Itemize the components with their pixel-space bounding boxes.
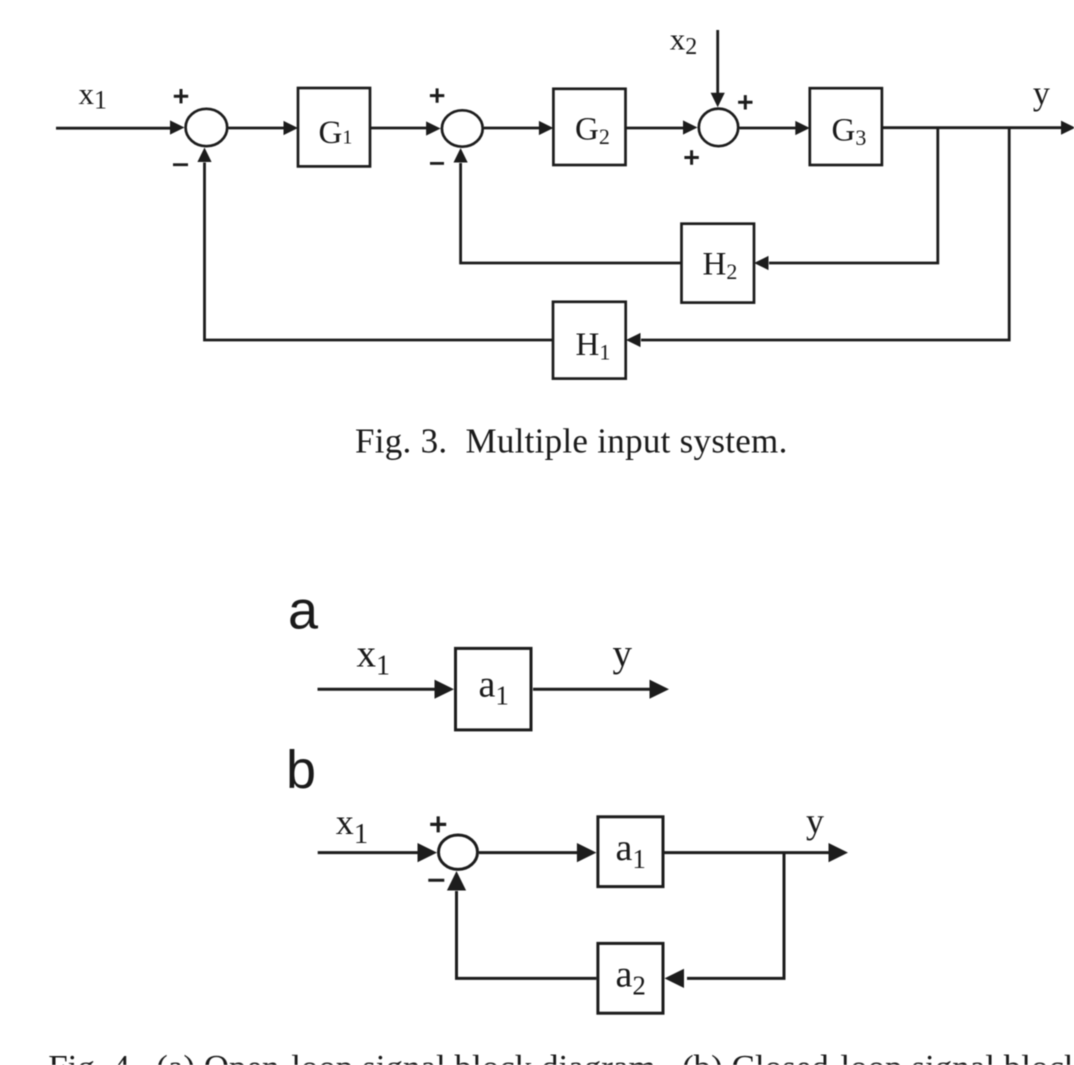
svg-text:y: y [1033,75,1050,112]
svg-text:x1: x1 [357,633,391,682]
svg-text:b: b [286,740,316,800]
svg-text:Fig. 4. (a) Open-loop signal: Fig. 4. (a) Open-loop signal block diagr… [48,1048,1074,1065]
arrowhead feedback into circle1 bottom [197,148,211,163]
arrowhead into H2 [754,256,769,270]
wire input x1 (diagram b) [318,851,419,854]
block G2 [553,89,625,165]
svg-text:a: a [288,581,319,641]
wire a1 to y (diagram b) [665,851,830,854]
block G3 [810,88,882,165]
wire G1 to circle2 [370,127,428,130]
arrowhead into H1 [626,333,641,347]
minus sign circle (diagram b) [428,879,444,882]
svg-text:x2: x2 [670,22,698,61]
arrowhead feedback into circle2 bottom [454,148,468,163]
arrowhead feedback into circle bottom (diagram b) [447,871,466,891]
svg-text:Fig. 3. Multiple input system: Fig. 3. Multiple input system. [355,422,788,461]
arrowhead output y (diagram b) [829,843,849,862]
plus sign circle3 upper right [738,95,752,109]
arrowhead into circle2 [426,121,441,135]
arrowhead output y (diagram a) [650,680,670,699]
wire H2 out to circle2 [461,163,682,263]
minus sign circle2 [430,162,444,165]
block G1 [298,88,370,166]
svg-text:y: y [806,801,824,841]
wire circle to a1 (diagram b) [479,851,578,854]
svg-text:y: y [613,632,633,675]
wire H1 out to circle1 [205,163,554,341]
arrowhead into circle1 [170,120,185,134]
wire x2 vertical [716,30,719,95]
wire G3 to output y [882,126,1062,129]
block a1 (diagram a) [456,648,532,730]
arrowhead output y (clipped at right edge) [1061,121,1074,135]
block H1 [553,302,626,379]
block a2 (diagram b) [598,943,663,1013]
minus sign circle1 [173,163,188,166]
arrowhead into G2 [539,121,554,135]
plus sign circle2 [430,88,444,102]
arrowhead into circle3 [683,120,698,134]
summing junction circle 2 [442,110,483,146]
svg-text:x1: x1 [79,76,108,115]
block a1 (diagram b) [598,817,663,887]
wire H1 junction drop [641,128,1009,340]
arrowhead into G1 [284,121,299,135]
wire circle3 to G3 [740,127,798,130]
arrowhead into circle (diagram b) [418,843,438,862]
summing junction circle (diagram b) [439,835,478,869]
arrowhead into G3 [795,121,810,135]
arrowhead into a1 (diagram b) [577,843,597,862]
wire H2 junction drop [769,128,938,263]
wire a1 to y (diagram a) [533,688,651,691]
arrowhead x2 into circle3 top [711,93,725,108]
wire input x1 [56,127,171,130]
summing junction circle 3 [699,109,738,147]
svg-text:x1: x1 [336,802,369,850]
wire circle1 to G1 [229,127,287,130]
plus sign circle3 lower left [684,150,698,164]
block H2 [682,224,755,303]
summing junction circle 1 [186,109,228,146]
arrowhead into a1 (diagram a) [435,680,455,699]
wire a2 out to circle bottom (diagram b) [457,891,597,978]
arrowhead into a2 (diagram b) [665,969,685,988]
wire input x1 (diagram a) [318,688,437,691]
plus sign circle1 [174,89,188,103]
wire G2 to circle3 [626,127,686,130]
plus sign circle (diagram b) [430,816,446,832]
wire circle2 to G2 [484,127,541,130]
wire junction drop to a2 (diagram b) [687,853,784,979]
